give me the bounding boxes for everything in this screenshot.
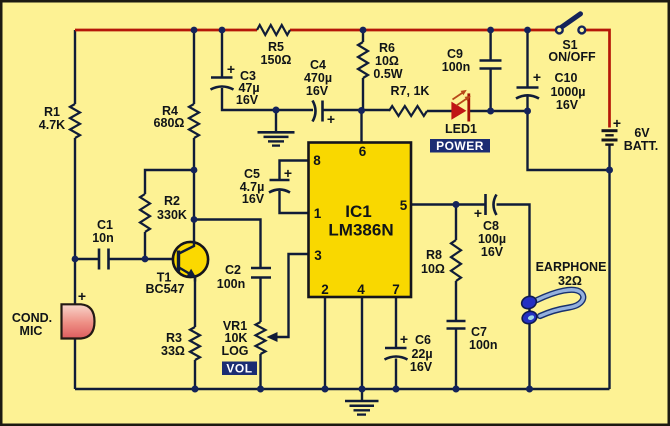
label C8 (478, 219, 506, 259)
label R5 (261, 40, 292, 67)
svg-text:+: + (227, 61, 235, 77)
transistor collector lead (179, 241, 194, 254)
svg-text:LOG: LOG (221, 344, 248, 358)
wire: C10 bottom to right rail (528, 96, 610, 170)
wire: pin 2 (324, 297, 326, 389)
label S1 (548, 38, 596, 64)
svg-text:+: + (474, 205, 482, 221)
switch S1 lever (561, 14, 581, 28)
svg-text:100n: 100n (442, 60, 471, 74)
earphone bud bottom (520, 309, 538, 325)
capacitor C10 (1000u electrolytic) (516, 88, 539, 99)
resistor R4 (189, 104, 199, 138)
junction node C9/supply rail (487, 27, 494, 34)
junction node battery negative (606, 167, 613, 174)
wire: right rail battery to bottom (608, 146, 610, 390)
wire: pin 3 to VR1 wiper (270, 254, 309, 337)
svg-text:100n: 100n (217, 277, 246, 291)
svg-text:+: + (533, 69, 541, 85)
junction node C10/LED wire (524, 108, 531, 115)
svg-text:C8: C8 (483, 219, 499, 233)
capacitor C8 (100u electrolytic horizontal) (486, 194, 497, 215)
svg-text:+: + (284, 165, 292, 181)
resistor R8 (451, 240, 461, 281)
VOL tag (222, 362, 257, 376)
capacitor C7 (100n) (447, 321, 466, 329)
wire: C8 to earphone column (497, 205, 530, 390)
resistor R3 (190, 327, 200, 360)
svg-text:10n: 10n (92, 231, 114, 245)
svg-text:16V: 16V (410, 360, 433, 374)
svg-text:R5: R5 (268, 40, 284, 54)
label R1 (39, 105, 65, 132)
svg-text:6: 6 (359, 144, 367, 159)
label R3 (161, 331, 185, 358)
transistor emitter lead (179, 268, 195, 282)
wire: R8/C7 column (455, 205, 457, 390)
resistor R5 (257, 25, 290, 35)
svg-text:16V: 16V (236, 93, 259, 107)
ground (bottom rail) (345, 389, 379, 415)
wire: C10 column top (526, 30, 528, 87)
svg-text:100n: 100n (469, 338, 498, 352)
svg-text:LM386N: LM386N (328, 221, 393, 240)
wire: LED to C9/C10 node (469, 110, 528, 112)
label C4 (304, 58, 332, 98)
wire: R1/mic left column (74, 30, 76, 389)
svg-text:10Ω: 10Ω (421, 262, 445, 276)
VR1 wiper arrow (267, 332, 278, 342)
label C2 (217, 263, 246, 291)
svg-text:16V: 16V (556, 98, 579, 112)
svg-text:33Ω: 33Ω (161, 344, 185, 358)
label EARPHONE (536, 260, 607, 288)
svg-text:R1: R1 (44, 105, 60, 119)
junction node R4/R2 (191, 167, 198, 174)
svg-text:BATT.: BATT. (624, 139, 659, 153)
POWER tag (430, 139, 490, 153)
label IC1 LM386N (328, 202, 393, 240)
resistor R2 (140, 194, 150, 232)
svg-text:8: 8 (313, 153, 321, 168)
resistor R1 (70, 104, 80, 138)
wire: pin 5 row to C8 (411, 203, 485, 205)
wire: pin 7 / C6 column (395, 297, 397, 389)
junction node VR1/ground rail (257, 386, 264, 393)
label R2 (157, 194, 187, 222)
svg-text:330K: 330K (157, 208, 187, 222)
wire: pin 4 (361, 297, 363, 389)
svg-text:5: 5 (400, 198, 408, 213)
switch S1 contacts (556, 27, 563, 34)
label C3 (236, 69, 260, 107)
svg-text:+: + (400, 331, 408, 347)
capacitor C2 (100n) (251, 268, 271, 278)
svg-text:C7: C7 (471, 325, 487, 339)
LED LED1 triangle (452, 103, 466, 119)
svg-text:C1: C1 (97, 218, 113, 232)
wire: C1 row / T1 base (75, 258, 178, 260)
junction node C7/ground rail (453, 386, 460, 393)
wire: collector to C2 (194, 220, 261, 268)
junction node R3/ground rail (192, 386, 199, 393)
svg-text:7: 7 (392, 282, 400, 297)
junction node C3/ground (273, 107, 280, 114)
label C6 (410, 333, 433, 374)
junction node pin2/ground rail (322, 386, 329, 393)
svg-text:+: + (78, 288, 86, 304)
svg-text:470µ: 470µ (304, 71, 332, 85)
junction node C6/ground rail (393, 386, 400, 393)
capacitor C3 (47u electrolytic) (211, 78, 234, 90)
svg-text:22µ: 22µ (411, 347, 432, 361)
wire: R6 column (362, 30, 364, 110)
transistor base bar (177, 251, 180, 272)
junction node collector/C2 (191, 216, 198, 223)
svg-text:BC547: BC547 (146, 282, 185, 296)
capacitor C4 (470u electrolytic horizontal) (313, 101, 323, 122)
ground (C3 node) (258, 110, 295, 146)
junction node mic/C1 (72, 256, 79, 263)
svg-text:R8: R8 (426, 248, 442, 262)
svg-text:10Ω: 10Ω (375, 54, 399, 68)
LED arrows (453, 90, 471, 106)
svg-text:LED1: LED1 (445, 122, 477, 136)
junction node R2/base (142, 256, 149, 263)
capacitor C9 (100n) (480, 61, 502, 69)
svg-text:R6: R6 (379, 41, 395, 55)
label battery (624, 126, 659, 153)
label R4 (154, 104, 185, 130)
wire: R2 branch (145, 170, 194, 259)
svg-text:680Ω: 680Ω (154, 116, 185, 130)
label R8 (421, 248, 445, 276)
svg-text:R3: R3 (166, 331, 182, 345)
svg-text:C2: C2 (225, 263, 241, 277)
junction node pin5/R8 (453, 201, 460, 208)
svg-text:+: + (327, 111, 335, 127)
svg-text:VOL: VOL (226, 361, 252, 375)
junction node C3/supply rail (219, 27, 226, 34)
wire: C3 column and ground node (222, 30, 313, 110)
battery B1 bars (602, 131, 618, 145)
label T1 (146, 271, 185, 297)
svg-text:EARPHONE: EARPHONE (536, 260, 607, 274)
label VR1 (221, 319, 248, 358)
transistor emitter arrow (187, 269, 197, 278)
svg-text:ON/OFF: ON/OFF (548, 50, 596, 64)
svg-text:4: 4 (357, 282, 365, 297)
wire: top red rail (75, 30, 610, 128)
svg-text:R2: R2 (164, 194, 180, 208)
svg-text:+: + (613, 115, 621, 131)
potentiometer VR1 (256, 322, 266, 354)
transistor Q1 BC547 body (173, 242, 208, 277)
label C9 (442, 47, 471, 74)
wire: R4 / T1 collector column (194, 30, 195, 389)
junction node pin6/R6 (358, 107, 365, 114)
wire: R7 to LED (427, 110, 452, 112)
junction node C10/supply rail (524, 27, 531, 34)
wire: pin 8 to C5 (280, 161, 309, 180)
junction node R4/supply rail (191, 27, 198, 34)
svg-text:16V: 16V (306, 84, 329, 98)
label COND MIC (12, 311, 52, 338)
svg-text:4.7K: 4.7K (39, 118, 65, 132)
svg-text:C4: C4 (310, 58, 326, 72)
label C7 (469, 325, 498, 352)
capacitor C6 (22u electrolytic) (385, 348, 408, 360)
label R6 (373, 41, 402, 81)
wire: bottom rail (75, 388, 610, 390)
svg-text:3: 3 (314, 248, 322, 263)
svg-text:C9: C9 (447, 47, 463, 61)
label C10 (550, 71, 585, 112)
resistor R7 (389, 106, 427, 116)
wire: C4 to pin6 node (323, 109, 390, 111)
svg-text:C6: C6 (415, 333, 431, 347)
svg-text:150Ω: 150Ω (261, 53, 292, 67)
wire: pin 6 stub (360, 110, 362, 143)
label C5 (240, 167, 265, 206)
junction node R6/supply rail (360, 27, 367, 34)
svg-text:10K: 10K (225, 331, 248, 345)
IC U1 LM386N body (309, 143, 412, 298)
junction node pin4/ground rail (359, 386, 366, 393)
svg-text:1: 1 (314, 206, 322, 221)
svg-text:16V: 16V (481, 245, 504, 259)
capacitor C1 (10n, vertical plates) (99, 249, 109, 270)
svg-text:C10: C10 (555, 71, 578, 85)
label C1 (92, 218, 114, 245)
LED cathode bar (467, 93, 470, 121)
svg-text:100µ: 100µ (478, 232, 506, 246)
wire: C2 to VR1 to bottom (259, 278, 261, 389)
earphone bud top (520, 294, 538, 310)
svg-text:COND.: COND. (12, 311, 52, 325)
svg-text:32Ω: 32Ω (558, 274, 582, 288)
resistor R6 (358, 42, 368, 78)
svg-text:IC1: IC1 (345, 202, 371, 221)
svg-text:MIC: MIC (20, 324, 43, 338)
capacitor C5 (4.7u electrolytic) (269, 180, 290, 193)
wire: C9 column (489, 30, 491, 111)
svg-text:2: 2 (321, 282, 329, 297)
svg-text:POWER: POWER (436, 139, 484, 153)
junction node C9/LED wire (487, 108, 494, 115)
svg-text:0.5W: 0.5W (373, 67, 402, 81)
svg-text:6V: 6V (634, 126, 650, 140)
wire: C5 to pin 1 (280, 191, 309, 213)
svg-text:R7, 1K: R7, 1K (391, 84, 430, 98)
svg-text:C5: C5 (244, 167, 260, 181)
svg-text:1000µ: 1000µ (550, 85, 585, 99)
earphone cable loop (537, 290, 583, 316)
svg-text:16V: 16V (242, 192, 265, 206)
junction node earphone/ground rail (526, 386, 533, 393)
